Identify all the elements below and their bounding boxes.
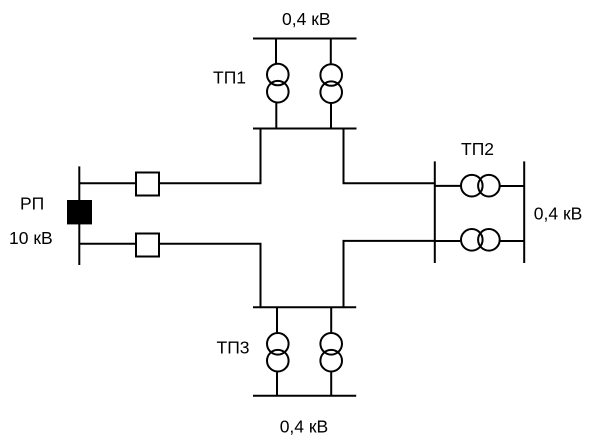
svg-text:ТП1: ТП1 [213,68,246,88]
svg-text:0,4 кВ: 0,4 кВ [282,9,331,29]
svg-text:ТП2: ТП2 [461,139,494,159]
svg-text:10 кВ: 10 кВ [9,228,53,248]
svg-text:0,4 кВ: 0,4 кВ [534,204,583,224]
svg-text:РП: РП [20,194,44,214]
svg-text:0,4 кВ: 0,4 кВ [280,417,329,437]
svg-text:ТП3: ТП3 [217,338,250,358]
